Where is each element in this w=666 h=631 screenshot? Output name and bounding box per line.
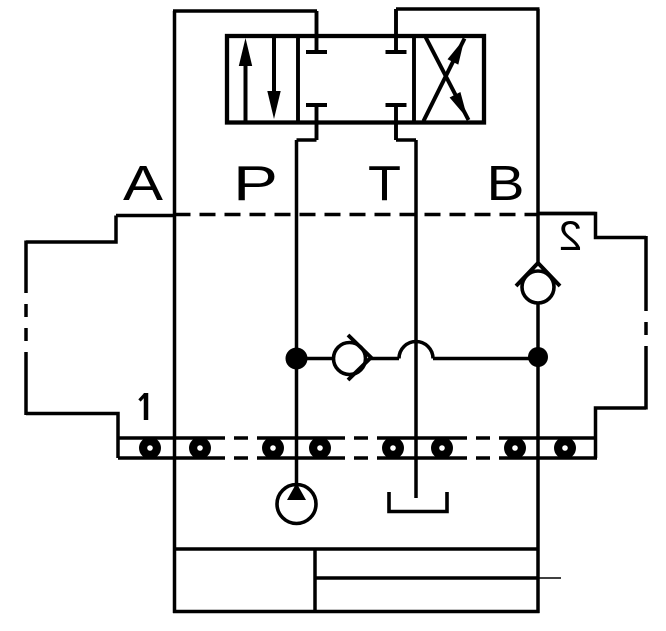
- svg-text:B: B: [487, 157, 525, 211]
- seal band top line solid/dash segments: [118, 436, 597, 440]
- check valve CV1 ball: [334, 343, 366, 375]
- node junction on P line: [286, 348, 308, 370]
- left step outer vertical solid lower: [24, 352, 28, 415]
- wire T jog from valve to T line: [396, 138, 416, 142]
- center cell top port 2 (stub+bar): [386, 9, 407, 52]
- center cell bottom port 2 (bar+stub): [386, 105, 407, 140]
- svg-text:A: A: [123, 157, 163, 211]
- seal band bottom line solid/dash segments: [118, 456, 597, 460]
- center cell bottom port 1 (bar+stub): [306, 105, 327, 140]
- seal 4: [309, 437, 331, 459]
- tank symbol: [389, 492, 447, 512]
- left cell down arrow: [267, 36, 280, 119]
- wire P line vertical: [295, 140, 299, 483]
- svg-text:2: 2: [559, 212, 582, 259]
- wire T line vertical: [414, 140, 418, 498]
- right step outer vertical solid lower: [644, 352, 648, 410]
- right step outline top: [538, 214, 646, 238]
- top-right tower top edge: [396, 7, 540, 11]
- pressure source symbol triangle: [287, 483, 306, 500]
- dashed interface line right solid part: [538, 212, 596, 216]
- left step outline top: [26, 216, 116, 243]
- plate left edge / A line: [173, 11, 177, 613]
- left step outline bottom: [26, 414, 118, 459]
- seal 3: [262, 437, 284, 459]
- seal 1: [139, 437, 161, 459]
- left cell up arrow: [239, 38, 252, 123]
- center cell top port 1 (stub+bar): [306, 11, 327, 52]
- right step outer vertical solid upper: [644, 236, 648, 298]
- pressure source symbol circle: [277, 485, 316, 524]
- seal 2: [189, 437, 211, 459]
- wire check valve to hop: [371, 357, 399, 361]
- check valve CV2 seat on B line: [516, 263, 560, 286]
- seal 7: [504, 437, 526, 459]
- plate right edge / B line upper: [536, 9, 540, 263]
- top-left tower top edge: [173, 9, 317, 13]
- wire P jog from valve to P line: [297, 138, 317, 142]
- dashed interface line: [175, 213, 539, 217]
- valve divider 1: [296, 36, 300, 123]
- valve divider 2: [412, 36, 416, 123]
- seal 5: [382, 437, 404, 459]
- valve U1 body: [227, 36, 484, 123]
- right cell crossed arrow \: [425, 36, 469, 120]
- check valve CV2 ball: [522, 271, 554, 303]
- plate bottom edge: [173, 610, 540, 614]
- plate right edge / B line lower: [536, 303, 540, 613]
- bottom block middle line: [315, 576, 538, 580]
- right cell crossed arrow /: [424, 39, 465, 122]
- seal 6: [431, 437, 453, 459]
- svg-text:T: T: [368, 157, 401, 211]
- label 1: [140, 393, 147, 420]
- seal 8: [554, 437, 576, 459]
- svg-text:P: P: [233, 157, 278, 211]
- wire bypass P-node to check valve: [297, 357, 334, 361]
- bottom block divider: [313, 549, 317, 612]
- check valve CV1 seat: [348, 335, 371, 380]
- left step outer vertical dashed: [24, 280, 28, 352]
- wire hop to B node: [433, 357, 538, 361]
- bottom block top line: [175, 547, 539, 551]
- left step outer vertical solid upper: [24, 241, 28, 281]
- node junction on B line: [528, 347, 548, 367]
- dashed interface line left solid part: [116, 214, 175, 218]
- right step outer vertical dashed: [644, 298, 648, 352]
- wire hop over T line: [399, 342, 433, 359]
- bottom block middle line extension: [538, 577, 561, 579]
- right step outline bottom: [596, 408, 647, 458]
